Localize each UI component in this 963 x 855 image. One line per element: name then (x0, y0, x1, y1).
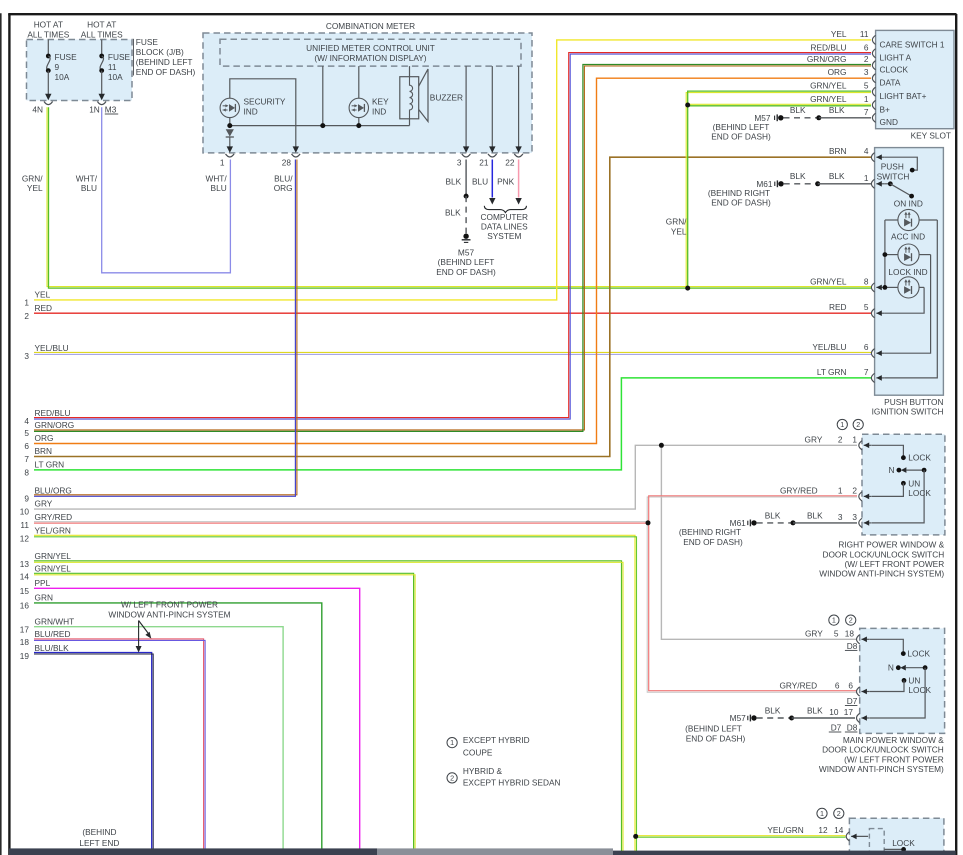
svg-text:6: 6 (848, 681, 853, 691)
wire 3 YEL/BLU to ignition pin 6 (34, 351, 871, 353)
svg-text:2: 2 (838, 434, 843, 444)
diode below security IND (226, 129, 234, 136)
svg-text:(BEHIND LEFT: (BEHIND LEFT (136, 57, 193, 67)
svg-text:ORG: ORG (35, 433, 54, 443)
ignition pin 7 LT GRN (871, 373, 874, 382)
svg-text:BLK: BLK (765, 510, 781, 520)
svg-text:LT GRN: LT GRN (817, 367, 847, 377)
svg-text:BLOCK (J/B): BLOCK (J/B) (136, 47, 184, 57)
svg-text:6: 6 (864, 42, 869, 52)
svg-text:17: 17 (844, 707, 854, 717)
ignition pin 8 GRN/YEL (871, 283, 874, 292)
svg-text:YEL: YEL (671, 226, 687, 236)
svg-text:GRY/RED: GRY/RED (35, 512, 73, 522)
svg-text:GRN/: GRN/ (22, 173, 43, 183)
svg-text:GND: GND (880, 117, 898, 127)
svg-text:RED: RED (829, 302, 847, 312)
wire 6 ORG to key slot pin 3 (34, 78, 871, 443)
svg-text:9: 9 (55, 62, 60, 72)
svg-text:RED/BLU: RED/BLU (35, 408, 71, 418)
svg-text:7: 7 (24, 454, 29, 464)
svg-text:UN: UN (908, 675, 920, 685)
svg-text:END OF DASH): END OF DASH) (683, 537, 743, 547)
svg-text:RED/BLU: RED/BLU (811, 42, 847, 52)
wire 4 RED/BLU to key slot pin 6 (34, 53, 871, 418)
svg-text:M57: M57 (458, 247, 475, 257)
svg-text:(BEHIND LEFT: (BEHIND LEFT (438, 257, 495, 267)
svg-text:LIGHT BAT+: LIGHT BAT+ (880, 91, 927, 101)
svg-text:2: 2 (837, 809, 841, 818)
wire 10 GRY to door lock switches (34, 445, 857, 509)
svg-text:BLK: BLK (790, 105, 806, 115)
svg-text:4: 4 (864, 146, 869, 156)
svg-text:FUSE: FUSE (108, 52, 131, 62)
right switch pin BLK 3 3 (859, 518, 862, 527)
svg-text:BLK: BLK (807, 510, 823, 520)
wire 12 YEL/GRN to bottom lock switch (34, 535, 635, 855)
wire security IND top to pin 28 (230, 79, 296, 147)
svg-text:1: 1 (838, 485, 843, 495)
svg-text:BLK: BLK (807, 705, 823, 715)
key slot box (876, 30, 954, 128)
bottom page-break bar (9, 848, 377, 855)
pin 1 (226, 154, 235, 157)
wire 13 GRN/YEL down (34, 561, 622, 855)
svg-text:10: 10 (20, 507, 30, 517)
svg-text:BLU/: BLU/ (274, 173, 293, 183)
svg-text:15: 15 (20, 586, 30, 596)
svg-text:HOT AT: HOT AT (34, 19, 63, 29)
wire 16 GRN down (34, 603, 322, 855)
wire 17 GRN/WHT down (34, 627, 283, 855)
svg-text:5: 5 (864, 302, 869, 312)
svg-text:1: 1 (820, 809, 824, 818)
ignition pin 4 BRN (871, 153, 874, 162)
svg-text:2: 2 (24, 311, 29, 321)
wire 1 YEL to key slot pin 11 (34, 40, 871, 300)
svg-text:FUSE: FUSE (55, 52, 78, 62)
wires pins 3 21 22 inside meter (465, 66, 467, 146)
svg-text:1: 1 (852, 434, 857, 444)
svg-text:END OF DASH): END OF DASH) (436, 267, 496, 277)
svg-text:1: 1 (220, 157, 225, 167)
svg-text:WINDOW ANTI-PINCH SYSTEM): WINDOW ANTI-PINCH SYSTEM) (819, 569, 944, 579)
svg-text:YEL/BLU: YEL/BLU (35, 343, 69, 353)
svg-text:1N: 1N (89, 104, 100, 114)
svg-text:N: N (889, 465, 895, 475)
svg-text:GRN/YEL: GRN/YEL (35, 564, 72, 574)
wire key IND feed (358, 66, 360, 98)
svg-text:UNIFIED METER CONTROL UNIT: UNIFIED METER CONTROL UNIT (306, 43, 435, 53)
svg-text:17: 17 (20, 624, 30, 634)
svg-text:1: 1 (450, 738, 454, 747)
svg-text:16: 16 (20, 601, 30, 611)
svg-text:RED: RED (35, 303, 53, 313)
bottom lock switch box (partial) (849, 818, 944, 855)
svg-text:GRN/ORG: GRN/ORG (35, 420, 75, 430)
svg-text:11: 11 (860, 29, 869, 39)
note 2 hybrid (447, 773, 457, 783)
svg-text:18: 18 (20, 637, 30, 647)
wire 2 RED to ignition pin 5 (34, 312, 871, 314)
svg-text:2: 2 (450, 774, 454, 783)
wire 9 BLU/ORG to combination meter pin 28 (34, 160, 297, 495)
svg-text:COMBINATION METER: COMBINATION METER (326, 21, 415, 31)
svg-text:22: 22 (505, 157, 515, 167)
svg-text:10A: 10A (55, 72, 70, 82)
svg-text:11: 11 (108, 62, 117, 72)
svg-text:(W/ INFORMATION DISPLAY): (W/ INFORMATION DISPLAY) (314, 53, 426, 63)
svg-text:(BEHIND LEFT: (BEHIND LEFT (713, 122, 770, 132)
pin 21 (488, 154, 497, 157)
right switch pin GRY/RED 1 2 (859, 492, 862, 501)
svg-text:14: 14 (834, 825, 844, 835)
svg-text:D7: D7 (847, 696, 858, 706)
svg-text:10: 10 (829, 707, 839, 717)
svg-text:13: 13 (20, 559, 30, 569)
svg-text:IND: IND (244, 106, 258, 116)
svg-text:18: 18 (845, 628, 855, 638)
svg-text:BLU: BLU (81, 183, 97, 193)
main switch pin BLK 10 17 (857, 713, 860, 722)
connector 1N / M3 (97, 102, 106, 105)
svg-text:PUSH BUTTON: PUSH BUTTON (884, 397, 943, 407)
svg-text:BLK: BLK (829, 171, 845, 181)
svg-text:EXCEPT HYBRID: EXCEPT HYBRID (463, 735, 530, 745)
svg-text:COUPE: COUPE (463, 748, 493, 758)
svg-text:7: 7 (864, 367, 869, 377)
fuse block (J/B) box (27, 40, 133, 101)
svg-text:1: 1 (840, 420, 844, 429)
svg-text:3: 3 (457, 157, 462, 167)
combination meter box (203, 33, 532, 153)
svg-text:(BEHIND RIGHT: (BEHIND RIGHT (708, 188, 770, 198)
svg-text:FUSE: FUSE (136, 37, 159, 47)
svg-text:M57: M57 (730, 713, 747, 723)
svg-text:END OF DASH): END OF DASH) (136, 67, 196, 77)
svg-text:CLOCK: CLOCK (880, 65, 909, 75)
connector 4N (44, 102, 53, 105)
svg-text:DATA: DATA (880, 78, 901, 88)
svg-text:4: 4 (24, 416, 29, 426)
pin 28 (292, 154, 301, 157)
right power window door lock unlock switch box (862, 434, 945, 535)
svg-text:(BEHIND LEFT: (BEHIND LEFT (685, 724, 742, 734)
bottom switch pin YEL/GRN 12 14 (846, 832, 849, 841)
svg-text:GRN/WHT: GRN/WHT (35, 616, 75, 626)
svg-text:2: 2 (849, 616, 853, 625)
svg-text:ORG: ORG (274, 183, 293, 193)
svg-text:9: 9 (24, 494, 29, 504)
svg-text:HOT AT: HOT AT (87, 19, 116, 29)
svg-text:BLK: BLK (446, 176, 462, 186)
svg-text:6: 6 (835, 681, 840, 691)
svg-text:1: 1 (24, 298, 29, 308)
svg-text:GRY/RED: GRY/RED (780, 485, 818, 495)
ignition pin 5 RED (871, 309, 874, 318)
svg-text:WINDOW ANTI-PINCH SYSTEM): WINDOW ANTI-PINCH SYSTEM) (819, 764, 944, 774)
key slot pin 1 B+ (872, 100, 875, 109)
key slot pin 3 DATA (872, 74, 875, 83)
wire WHT/BLU from fuse 11 to combination meter pin 1 (102, 107, 231, 273)
main switch internals (870, 639, 904, 653)
svg-text:19: 19 (20, 651, 30, 661)
right switch pin GRY 2 1 (859, 441, 862, 450)
svg-text:SYSTEM: SYSTEM (487, 231, 521, 241)
note 1 except hybrid coupe (447, 738, 457, 748)
svg-text:DOOR LOCK/UNLOCK SWITCH: DOOR LOCK/UNLOCK SWITCH (822, 549, 944, 559)
main switch pin GRY/RED 6 6 (857, 687, 860, 696)
main power window door lock unlock switch box (860, 628, 945, 733)
brace computer data lines (484, 206, 526, 213)
ignition pin 1 BLK (871, 179, 874, 188)
buzzer (409, 66, 411, 77)
svg-text:2: 2 (856, 420, 860, 429)
svg-text:GRY/RED: GRY/RED (779, 681, 817, 691)
svg-text:10A: 10A (108, 72, 123, 82)
svg-text:WHT/: WHT/ (76, 173, 98, 183)
svg-text:4N: 4N (32, 104, 43, 114)
wire BLU pin 21 (491, 160, 493, 198)
pin 3 (462, 154, 471, 157)
fuse 11 10A (101, 40, 103, 57)
svg-text:END OF DASH): END OF DASH) (711, 132, 771, 142)
svg-text:LOCK: LOCK (908, 453, 931, 463)
svg-text:MAIN POWER WINDOW &: MAIN POWER WINDOW & (843, 735, 944, 745)
unified meter control unit box (220, 39, 521, 66)
svg-text:BLU/BLK: BLU/BLK (35, 643, 70, 653)
svg-text:LOCK: LOCK (908, 685, 931, 695)
svg-text:UN: UN (908, 478, 920, 488)
svg-text:PPL: PPL (35, 578, 51, 588)
svg-text:(BEHIND RIGHT: (BEHIND RIGHT (679, 527, 741, 537)
svg-text:GRY: GRY (805, 628, 823, 638)
svg-text:BLK: BLK (445, 207, 461, 217)
svg-text:28: 28 (282, 157, 292, 167)
svg-text:11: 11 (20, 520, 29, 530)
wire PNK pin 22 (518, 160, 520, 198)
svg-text:BLK: BLK (765, 705, 781, 715)
svg-text:5: 5 (864, 81, 869, 91)
svg-text:GRY: GRY (805, 434, 823, 444)
svg-text:YEL/GRN: YEL/GRN (35, 526, 71, 536)
svg-text:YEL: YEL (35, 290, 51, 300)
svg-text:LOCK: LOCK (908, 488, 931, 498)
svg-text:GRN/ORG: GRN/ORG (807, 54, 847, 64)
svg-text:3: 3 (852, 512, 857, 522)
svg-text:CARE SWITCH 1: CARE SWITCH 1 (880, 39, 945, 49)
svg-text:14: 14 (20, 572, 30, 582)
push switch (884, 157, 917, 170)
wire 7 BRN to ignition pin 4 (34, 157, 871, 456)
inner dashed box (869, 829, 884, 855)
svg-text:WINDOW ANTI-PINCH SYSTEM: WINDOW ANTI-PINCH SYSTEM (108, 610, 230, 620)
page frame (0, 13, 2, 855)
wire 15 PPL down (34, 588, 360, 855)
wire GRN/YEL from fuse 9 to push button ignition switch pin 8 (47, 107, 871, 286)
svg-text:END OF DASH): END OF DASH) (686, 733, 746, 743)
key slot pin 5 LIGHT BAT+ (872, 87, 875, 96)
wire BLK pin 3 to ground M57 (465, 160, 467, 197)
svg-text:ALL TIMES: ALL TIMES (27, 29, 69, 39)
svg-text:WHT/: WHT/ (205, 173, 227, 183)
svg-text:YEL: YEL (27, 183, 43, 193)
wire 8 LT GRN to ignition pin 7 (34, 378, 871, 470)
svg-text:D8: D8 (847, 641, 858, 651)
right switch internals (872, 445, 904, 457)
svg-text:PUSH: PUSH (881, 162, 904, 172)
svg-text:3: 3 (24, 351, 29, 361)
svg-text:M3: M3 (105, 104, 117, 114)
svg-text:LIGHT A: LIGHT A (880, 53, 912, 63)
wire 5 GRN/ORG to key slot pin 2 (34, 66, 871, 430)
wire 14 GRN/YEL down (34, 573, 414, 855)
svg-text:ORG: ORG (828, 67, 847, 77)
svg-text:1: 1 (864, 94, 869, 104)
svg-text:BLK: BLK (829, 105, 845, 115)
svg-text:EXCEPT HYBRID SEDAN: EXCEPT HYBRID SEDAN (463, 777, 561, 787)
svg-text:2: 2 (864, 54, 869, 64)
svg-text:KEY SLOT: KEY SLOT (911, 130, 951, 140)
ground M57 (463, 234, 468, 239)
fuse block label (132, 39, 134, 76)
svg-text:GRN/YEL: GRN/YEL (810, 81, 847, 91)
svg-text:8: 8 (864, 276, 869, 286)
key IND LED (349, 98, 368, 117)
svg-text:LEFT END: LEFT END (79, 838, 119, 848)
svg-text:LOCK: LOCK (892, 838, 915, 848)
svg-text:GRN/YEL: GRN/YEL (35, 551, 72, 561)
svg-text:BLK: BLK (790, 171, 806, 181)
svg-text:(W/ LEFT FRONT POWER: (W/ LEFT FRONT POWER (844, 559, 944, 569)
ignition internal wires (884, 220, 886, 287)
svg-text:DOOR LOCK/UNLOCK SWITCH: DOOR LOCK/UNLOCK SWITCH (822, 745, 944, 755)
key slot pin 11 CARE SWITCH 1 (872, 35, 875, 44)
security IND LED (220, 98, 239, 117)
svg-text:BLU: BLU (211, 183, 227, 193)
svg-text:SECURITY: SECURITY (244, 96, 286, 106)
svg-text:BLU: BLU (472, 176, 488, 186)
main switch pin GRY 5 18 (857, 635, 860, 644)
svg-text:(BEHIND: (BEHIND (82, 827, 116, 837)
key slot pin 6 LIGHT A (872, 49, 875, 58)
svg-text:8: 8 (24, 468, 29, 478)
svg-text:3: 3 (864, 67, 869, 77)
svg-text:ON IND: ON IND (894, 199, 923, 209)
svg-text:21: 21 (479, 157, 489, 167)
svg-text:D7: D7 (831, 722, 842, 732)
push button ignition switch box (875, 148, 944, 396)
svg-text:BUZZER: BUZZER (430, 92, 463, 102)
svg-text:5: 5 (24, 428, 29, 438)
svg-text:6: 6 (864, 342, 869, 352)
svg-text:3: 3 (838, 512, 843, 522)
svg-text:6: 6 (24, 441, 29, 451)
wire GRN/YEL branch to key slot pins 5 and 1 (686, 93, 871, 289)
key slot pin 2 CLOCK (872, 61, 875, 70)
svg-text:ACC IND: ACC IND (891, 231, 925, 241)
svg-text:12: 12 (20, 534, 30, 544)
svg-text:HYBRID &: HYBRID & (463, 766, 503, 776)
svg-text:BLU/RED: BLU/RED (35, 629, 71, 639)
wire 19 BLU/BLK down (34, 653, 152, 855)
svg-text:2: 2 (852, 485, 857, 495)
svg-text:GRY: GRY (35, 499, 53, 509)
svg-text:12: 12 (818, 825, 828, 835)
svg-text:5: 5 (834, 628, 839, 638)
svg-text:LOCK IND: LOCK IND (888, 267, 927, 277)
svg-text:RIGHT POWER WINDOW &: RIGHT POWER WINDOW & (838, 540, 944, 550)
svg-text:YEL: YEL (831, 29, 847, 39)
svg-text:ALL TIMES: ALL TIMES (81, 29, 123, 39)
svg-text:YEL/BLU: YEL/BLU (812, 342, 846, 352)
svg-text:1: 1 (864, 173, 869, 183)
wire 11 GRY/RED to door lock switches (34, 497, 857, 522)
svg-text:LOCK: LOCK (907, 649, 930, 659)
svg-text:GRN: GRN (35, 593, 53, 603)
svg-text:KEY: KEY (372, 96, 389, 106)
svg-text:YEL/GRN: YEL/GRN (767, 825, 803, 835)
pin 22 (514, 154, 523, 157)
svg-text:GRN/YEL: GRN/YEL (810, 276, 847, 286)
svg-text:GRN/: GRN/ (666, 217, 687, 227)
svg-text:(W/ LEFT FRONT POWER: (W/ LEFT FRONT POWER (844, 754, 944, 764)
ignition pin 6 YEL/BLU (871, 349, 874, 358)
wire 18 BLU/RED down (34, 639, 204, 855)
svg-text:7: 7 (864, 107, 869, 117)
svg-text:B+: B+ (880, 104, 891, 114)
svg-text:BLU/ORG: BLU/ORG (35, 486, 72, 496)
svg-text:IGNITION SWITCH: IGNITION SWITCH (872, 407, 944, 417)
svg-text:LT GRN: LT GRN (35, 460, 65, 470)
svg-text:GRN/YEL: GRN/YEL (810, 94, 847, 104)
fuse 9 10A (47, 40, 49, 57)
svg-text:SWITCH: SWITCH (877, 171, 910, 181)
wire common cathode line (229, 118, 231, 126)
svg-text:BRN: BRN (35, 446, 53, 456)
svg-text:END OF DASH): END OF DASH) (711, 198, 771, 208)
svg-text:BRN: BRN (829, 146, 847, 156)
svg-text:W/ LEFT FRONT POWER: W/ LEFT FRONT POWER (121, 600, 218, 610)
svg-text:1: 1 (832, 616, 836, 625)
key slot pin 7 GND (872, 113, 875, 122)
svg-text:D8: D8 (847, 722, 858, 732)
svg-text:PNK: PNK (497, 176, 515, 186)
svg-text:N: N (888, 663, 894, 673)
svg-text:IND: IND (372, 106, 386, 116)
